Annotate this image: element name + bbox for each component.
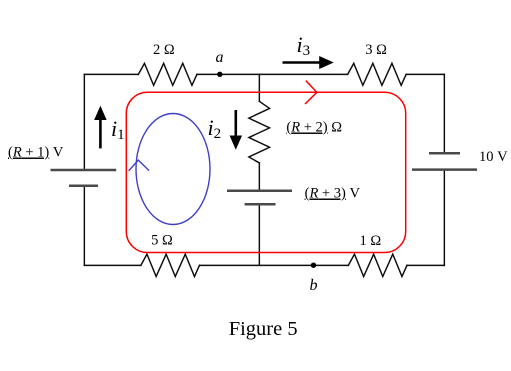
wire top-right segment bbox=[406, 73, 444, 75]
wire right branch lower bbox=[443, 171, 445, 265]
current arrow i1 bbox=[95, 107, 106, 148]
battery 10V long plate bbox=[412, 168, 477, 171]
wire middle branch mid bbox=[258, 163, 260, 190]
wire bottom-left segment bbox=[84, 264, 141, 266]
svg-text:(R + 1) V: (R + 1) V bbox=[8, 145, 64, 161]
battery (R+3)V long plate bbox=[227, 190, 292, 193]
node b dot bbox=[311, 263, 316, 268]
svg-text:2 Ω: 2 Ω bbox=[153, 42, 175, 58]
resistor 3ohm bbox=[348, 63, 407, 85]
svg-text:i2: i2 bbox=[208, 115, 222, 142]
battery (R+1)V long plate bbox=[51, 169, 117, 172]
wire middle branch upper bbox=[258, 74, 260, 101]
wire top-middle segment bbox=[197, 73, 348, 75]
svg-text:10 V: 10 V bbox=[479, 149, 508, 165]
battery (R+1)V short plate bbox=[69, 184, 98, 187]
mesh current arrowhead (blue) bbox=[129, 160, 150, 171]
mesh current ellipse (blue) bbox=[136, 114, 210, 225]
resistor 1ohm bbox=[348, 254, 407, 276]
current arrow i2 bbox=[230, 110, 241, 149]
svg-text:Figure 5: Figure 5 bbox=[229, 318, 298, 340]
wire left branch upper bbox=[83, 74, 85, 169]
svg-text:3 Ω: 3 Ω bbox=[365, 42, 387, 58]
svg-text:(R + 2) Ω: (R + 2) Ω bbox=[286, 120, 342, 136]
wire top-left segment bbox=[84, 73, 138, 75]
resistor (R+2)ohm bbox=[249, 101, 270, 163]
wire bottom-middle segment bbox=[199, 264, 348, 266]
resistor 5ohm bbox=[141, 254, 200, 276]
svg-text:i3: i3 bbox=[297, 32, 311, 59]
wire bottom-right segment bbox=[407, 264, 444, 266]
battery (R+3)V short plate bbox=[245, 203, 276, 206]
node a dot bbox=[217, 72, 222, 77]
battery 10V short plate bbox=[429, 152, 460, 155]
svg-text:b: b bbox=[310, 277, 318, 294]
wire middle branch lower bbox=[258, 206, 260, 265]
svg-text:i1: i1 bbox=[111, 116, 125, 143]
wire right branch upper bbox=[443, 74, 445, 153]
wire left branch lower bbox=[83, 187, 85, 265]
svg-text:(R + 3) V: (R + 3) V bbox=[305, 186, 361, 202]
svg-text:5 Ω: 5 Ω bbox=[151, 233, 173, 249]
svg-text:a: a bbox=[216, 49, 224, 66]
current arrow i3 bbox=[283, 57, 333, 68]
mesh loop (red rounded rectangle) bbox=[126, 92, 405, 252]
mesh loop direction arrowhead (red) bbox=[305, 81, 317, 104]
svg-text:1 Ω: 1 Ω bbox=[360, 233, 382, 249]
resistor 2ohm bbox=[138, 63, 197, 85]
